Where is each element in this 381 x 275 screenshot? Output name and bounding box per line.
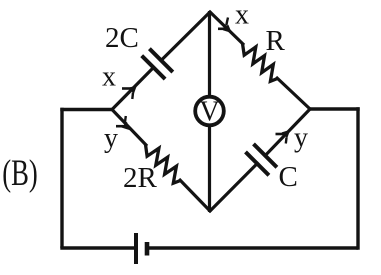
capacitor 2C plate 1: [142, 56, 165, 79]
voltmeter V circle: [195, 97, 224, 126]
wire: upper-left arm upper segment (capacitor 2C to top node): [160, 11, 211, 62]
label 2R: [123, 162, 158, 194]
current arrow y (lower-right arm): [276, 130, 291, 144]
wire: left horizontal from left bridge node to left rail: [60, 108, 112, 111]
svg-text:2C: 2C: [105, 22, 139, 54]
wire: upper-left arm lower segment (left node to capacitor 2C): [112, 66, 155, 109]
wire: galvanometer branch upper (top node to voltmeter): [208, 11, 211, 96]
svg-text:V: V: [199, 97, 219, 128]
svg-text:R: R: [266, 25, 286, 57]
wire: lower-right arm upper segment (capacitor C to right node): [264, 108, 311, 157]
svg-text:x: x: [102, 62, 116, 93]
battery B1 short plate (-): [145, 242, 150, 256]
svg-text:y: y: [104, 123, 118, 154]
svg-text:2R: 2R: [123, 162, 158, 194]
wire: left vertical rail: [60, 108, 63, 248]
capacitor C plate 1: [246, 152, 269, 175]
figure label (B): [2, 152, 37, 193]
wire: upper-right arm upper segment (top node to resistor R): [209, 11, 244, 45]
voltmeter V letter: [199, 97, 219, 128]
wire: bottom left segment to battery: [60, 246, 136, 249]
wire: right vertical rail: [356, 107, 359, 249]
current label x (top branch): [235, 0, 249, 31]
current arrow x (upper-left arm): [122, 85, 137, 99]
current arrow x (top branch): [218, 18, 232, 34]
svg-text:(B): (B): [2, 152, 37, 193]
label C: [279, 161, 298, 193]
wire: lower-left arm upper segment (left node to resistor 2R): [112, 110, 147, 147]
svg-text:x: x: [235, 0, 249, 31]
label 2C: [105, 22, 139, 54]
capacitor C plate 2: [254, 144, 277, 167]
battery B1 long plate (+): [134, 233, 138, 264]
current arrow y (lower-left arm): [116, 116, 130, 130]
wire: bottom right segment from battery to right rail: [147, 246, 358, 249]
wire: right horizontal from right rail to right bridge node: [310, 107, 360, 110]
current label x (upper-left arm): [102, 62, 116, 93]
resistor R zigzag: [243, 44, 278, 82]
wire: lower-left arm lower segment (resistor 2R to bottom node): [179, 179, 211, 212]
label R: [266, 25, 286, 57]
wire: galvanometer branch lower (voltmeter to bottom node): [208, 126, 211, 212]
wire: upper-right arm lower segment (resistor R to right node): [276, 77, 310, 109]
capacitor 2C plate 2: [149, 49, 172, 72]
svg-text:y: y: [294, 123, 308, 154]
svg-text:C: C: [279, 161, 298, 193]
wire: lower-right arm lower segment (bottom node to capacitor C): [209, 162, 259, 212]
current label y (lower-left arm): [104, 123, 118, 154]
current label y (lower-right arm): [294, 123, 308, 154]
resistor 2R zigzag: [146, 145, 181, 184]
